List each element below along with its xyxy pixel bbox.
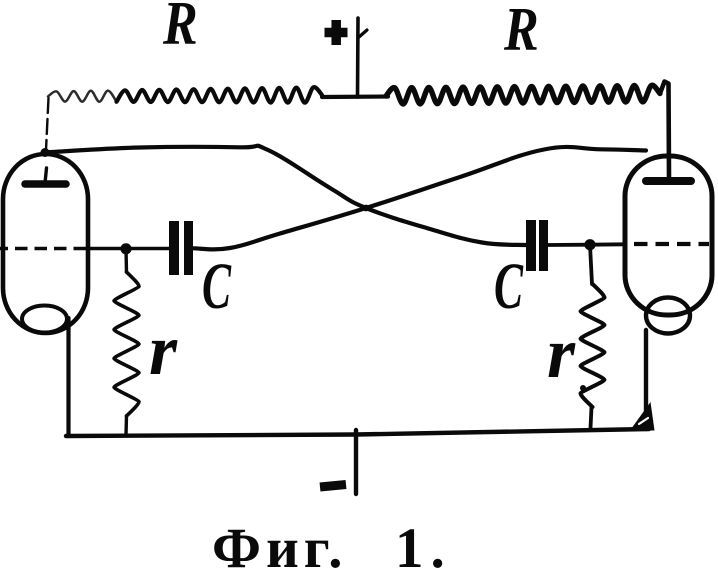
- resistor r1 bottom lead: [124, 416, 128, 435]
- wire: R2 right corner down to tube V2 anode: [660, 82, 669, 179]
- wire: V2 cathode down to bottom rail: [644, 330, 648, 429]
- tube V1 anode plate: [25, 180, 66, 188]
- node A (grid of V1 / C1 / r1): [120, 243, 131, 254]
- resistor r1 (left grid leak): lead from node A: [124, 249, 128, 272]
- capacitor C1: [174, 221, 189, 275]
- wire: V1 anode across down to C2 (cross-coupling): [45, 146, 526, 245]
- wire: R1 left end dashed lead down to tube V1 anode: [46, 98, 49, 150]
- svg-text:1.: 1.: [395, 517, 452, 574]
- tube V1 envelope: [3, 154, 88, 333]
- tube V2 envelope: [625, 156, 712, 315]
- label + (plus terminal): [325, 20, 348, 45]
- svg-text:C: C: [202, 250, 232, 323]
- junction blob at rail / V2 cathode corner: [630, 402, 655, 431]
- tube V2 anode plate: [646, 177, 691, 185]
- wire: C1 right plate up across to V2 anode (cross-coupling): [194, 147, 647, 249]
- tube V1 cathode: [22, 306, 67, 333]
- resistor R1 (left anode resistor): [117, 87, 323, 103]
- wire: minus terminal lead: [354, 430, 358, 494]
- resistor r1 zigzag: [114, 272, 139, 416]
- svg-text:r: r: [547, 313, 576, 393]
- tube V2 cathode: [646, 298, 690, 334]
- resistor r2 (right grid leak): lead from node B: [590, 245, 592, 284]
- tube V1 grid (dashed): [0, 247, 88, 251]
- svg-text:Фиг.: Фиг.: [212, 517, 348, 574]
- node: V1 anode junction: [41, 148, 50, 157]
- tube V2 grid (dashed): [634, 242, 709, 246]
- node: crossing knot: [363, 205, 370, 212]
- wire: V1 grid to node A: [88, 247, 169, 251]
- svg-text:r: r: [149, 310, 178, 390]
- speck artifact near r2: [580, 385, 586, 391]
- wire: node B to V2 grid: [590, 242, 624, 246]
- label − (minus terminal): [320, 485, 346, 488]
- svg-text:R: R: [503, 0, 539, 64]
- resistor r2 zigzag: [580, 284, 604, 407]
- capacitor C2: [531, 220, 544, 271]
- node B (grid of V2 / C2 / r2): [584, 239, 595, 250]
- resistor R1 (left anode resistor, faint left part): [48, 91, 117, 102]
- wire: plus terminal lead: [356, 18, 360, 97]
- wire: V1 cathode down to bottom rail: [66, 318, 70, 436]
- bottom rail: [66, 429, 649, 436]
- resistor r2 bottom lead: [591, 407, 592, 428]
- svg-text:C: C: [494, 250, 524, 323]
- resistor R2 (right anode resistor): [386, 85, 660, 104]
- wire: C2 right plate to node B: [548, 243, 590, 247]
- wire: junction between R1 and R2 under plus lead: [322, 94, 388, 99]
- svg-text:R: R: [162, 0, 198, 58]
